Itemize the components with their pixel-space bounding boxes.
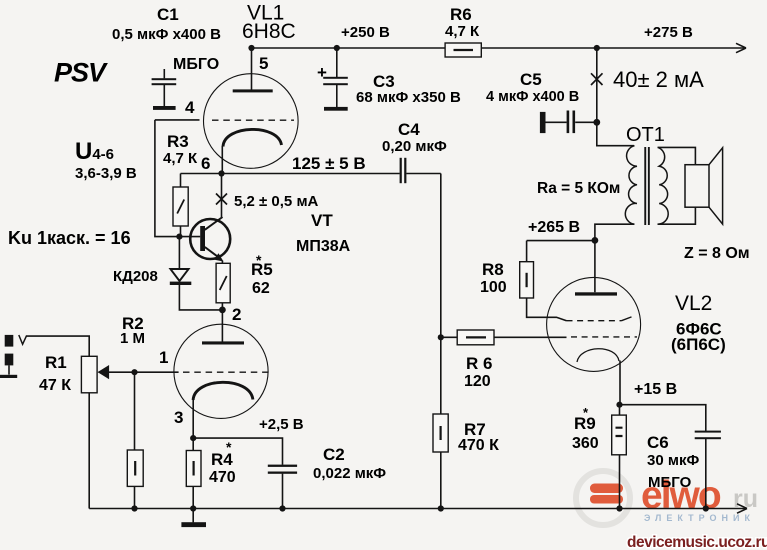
svg-text:R 6: R 6 bbox=[466, 354, 492, 373]
svg-text:4,7 К: 4,7 К bbox=[445, 23, 480, 40]
svg-text:R3: R3 bbox=[167, 132, 189, 151]
svg-text:1: 1 bbox=[159, 348, 168, 367]
svg-text:С2: С2 bbox=[323, 445, 345, 464]
svg-text:Ku 1каск. = 16: Ku 1каск. = 16 bbox=[8, 228, 131, 248]
svg-text:R5: R5 bbox=[251, 260, 273, 279]
svg-text:+250 В: +250 В bbox=[341, 24, 390, 41]
svg-text:3: 3 bbox=[174, 408, 183, 427]
svg-text:R8: R8 bbox=[482, 260, 504, 279]
svg-text:R9: R9 bbox=[574, 414, 596, 433]
svg-text:5,2 ± 0,5 мА: 5,2 ± 0,5 мА bbox=[234, 193, 319, 210]
svg-text:+265 В: +265 В bbox=[528, 219, 580, 236]
svg-text:+15 В: +15 В bbox=[634, 381, 677, 398]
svg-text:360: 360 bbox=[572, 435, 599, 452]
svg-text:R1: R1 bbox=[45, 353, 67, 372]
svg-text:100: 100 bbox=[480, 279, 507, 296]
svg-text:120: 120 bbox=[464, 373, 491, 390]
svg-text:+275 В: +275 В bbox=[644, 24, 693, 41]
svg-text:С4: С4 bbox=[398, 120, 420, 139]
svg-text:R4: R4 bbox=[211, 450, 233, 469]
svg-text:4 мкФ х400 В: 4 мкФ х400 В bbox=[486, 89, 579, 105]
svg-text:МБГО: МБГО bbox=[173, 56, 219, 73]
svg-text:МБГО: МБГО bbox=[648, 474, 692, 491]
svg-text:С6: С6 bbox=[647, 433, 669, 452]
svg-text:VL2: VL2 bbox=[675, 292, 712, 315]
svg-text:Ra = 5 КОм: Ra = 5 КОм bbox=[537, 180, 620, 197]
svg-text:ЭЛЕКТРОНИК: ЭЛЕКТРОНИК bbox=[644, 513, 755, 523]
svg-text:2: 2 bbox=[232, 305, 241, 324]
svg-text:С1: С1 bbox=[157, 5, 179, 24]
svg-text:68 мкФ х350 В: 68 мкФ х350 В bbox=[356, 89, 461, 106]
svg-text:devicemusic.ucoz.ru: devicemusic.ucoz.ru bbox=[627, 534, 767, 550]
svg-text:4: 4 bbox=[185, 98, 195, 117]
svg-text:Z = 8 Ом: Z = 8 Ом bbox=[684, 245, 750, 262]
svg-text:6Н8С: 6Н8С bbox=[242, 20, 296, 43]
svg-text:470 К: 470 К bbox=[458, 437, 499, 454]
svg-text:6: 6 bbox=[201, 154, 210, 173]
svg-text:PSV: PSV bbox=[54, 58, 108, 88]
svg-text:5: 5 bbox=[259, 54, 268, 73]
svg-text:(6П6С): (6П6С) bbox=[671, 335, 726, 354]
svg-text:40± 2 мА: 40± 2 мА bbox=[613, 67, 704, 92]
svg-text:0,022 мкФ: 0,022 мкФ bbox=[313, 465, 386, 482]
svg-text:0,5 мкФ х400 В: 0,5 мкФ х400 В bbox=[112, 26, 221, 43]
svg-text:3,6-3,9 В: 3,6-3,9 В bbox=[75, 165, 137, 182]
svg-text:R6: R6 bbox=[450, 5, 472, 24]
svg-text:4,7 К: 4,7 К bbox=[163, 150, 198, 167]
svg-text:0,20 мкФ: 0,20 мкФ bbox=[382, 138, 447, 155]
svg-text:КД208: КД208 bbox=[113, 268, 158, 285]
svg-text:62: 62 bbox=[252, 280, 270, 297]
svg-text:125 ± 5 В: 125 ± 5 В bbox=[292, 154, 366, 173]
svg-text:1 М: 1 М bbox=[120, 330, 145, 347]
svg-text:VT: VT bbox=[311, 211, 333, 230]
svg-text:МП38А: МП38А bbox=[296, 238, 351, 255]
svg-text:ОТ1: ОТ1 bbox=[626, 124, 665, 146]
svg-text:47 К: 47 К bbox=[39, 377, 71, 394]
svg-text:30 мкФ: 30 мкФ bbox=[647, 452, 699, 469]
svg-text:+: + bbox=[317, 63, 327, 82]
svg-text:470: 470 bbox=[209, 469, 236, 486]
svg-text:С5: С5 bbox=[520, 70, 542, 89]
svg-text:+2,5 В: +2,5 В bbox=[259, 416, 304, 433]
